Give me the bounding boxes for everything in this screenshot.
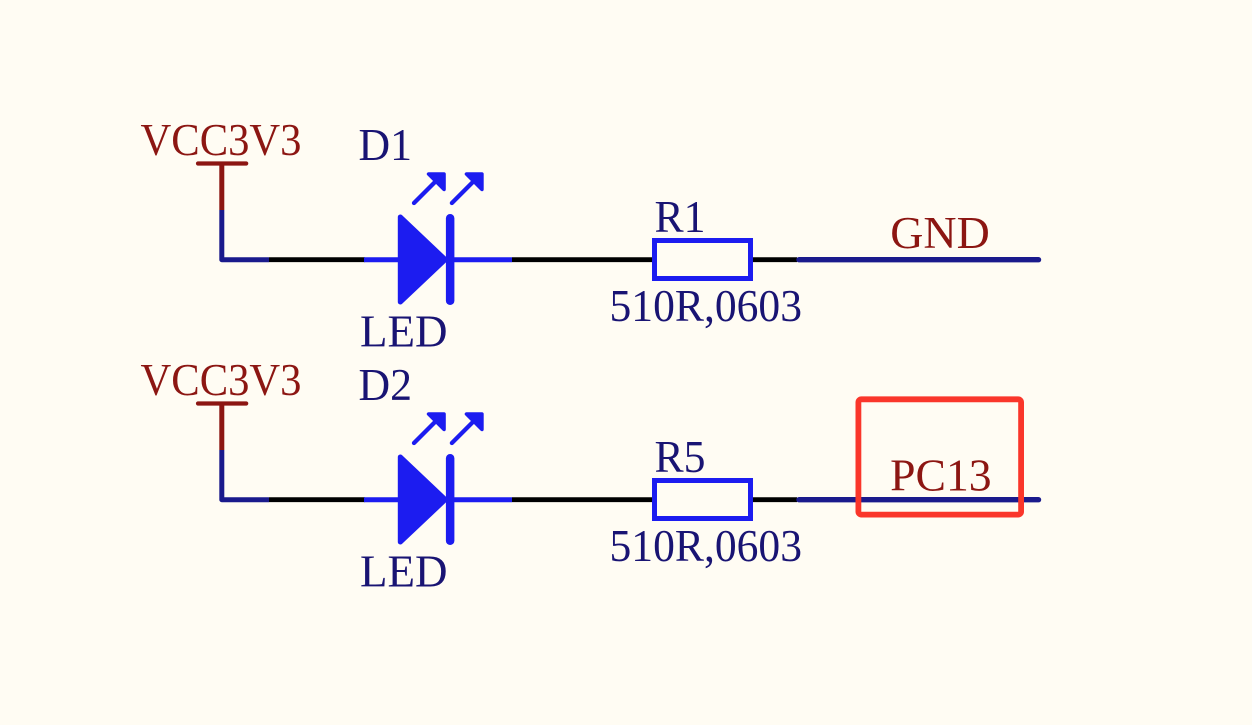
LED D1 arrow 2 shaft	[452, 182, 474, 204]
svg-text:R5: R5	[655, 432, 706, 482]
resistor R5 body box	[655, 481, 751, 519]
wire black R1 to GND net (row 1)	[753, 257, 797, 262]
wire black LED to R5 (row 2)	[512, 497, 653, 502]
LED D1 arrow 1 head	[429, 174, 444, 189]
LED D1 left pin	[364, 257, 399, 262]
wire black LED to R1 (row 1)	[512, 257, 653, 262]
wire black VCC to LED (row 2)	[269, 497, 365, 502]
LED D2 arrow 2 shaft	[452, 422, 474, 444]
svg-text:510R,0603: 510R,0603	[610, 281, 803, 331]
LED D2 left pin	[364, 497, 399, 502]
svg-text:LED: LED	[360, 547, 448, 597]
LED D2 triangle anode	[400, 457, 445, 542]
LED D2 arrow 1 shaft	[414, 422, 436, 444]
wire black R5 to PC13 net (row 2)	[753, 497, 797, 502]
LED D1 arrow 1 shaft	[414, 182, 436, 204]
svg-text:GND: GND	[890, 208, 990, 258]
wire navy GND net (row 1)	[799, 257, 1039, 262]
LED D2 cathode bar	[446, 454, 455, 545]
resistor R1 body box	[655, 241, 751, 279]
svg-text:D2: D2	[359, 360, 413, 410]
svg-text:LED: LED	[360, 307, 448, 357]
LED D1 cathode bar	[446, 214, 455, 305]
power port VCC3V3 (row 2) bar symbol	[198, 404, 246, 451]
svg-text:VCC3V3: VCC3V3	[141, 115, 302, 165]
svg-text:VCC3V3: VCC3V3	[141, 355, 302, 405]
wire navy from VCC stem to corner (row 1)	[222, 210, 269, 260]
LED D2 right pin	[452, 497, 512, 502]
svg-text:R1: R1	[655, 192, 706, 242]
svg-text:PC13: PC13	[890, 451, 992, 501]
LED D1 arrow 2 head	[467, 174, 482, 189]
LED D2 arrow 2 head	[467, 414, 482, 429]
LED D2 arrow 1 head	[429, 414, 444, 429]
wire black VCC to LED (row 1)	[269, 257, 365, 262]
LED D1 triangle anode	[400, 217, 445, 302]
svg-text:510R,0603: 510R,0603	[610, 521, 803, 571]
svg-text:D1: D1	[359, 120, 413, 170]
port box PC13 (red highlight rectangle)	[858, 399, 1021, 514]
wire navy PC13 net (row 2)	[799, 497, 1039, 502]
LED D1 right pin	[452, 257, 512, 262]
power port VCC3V3 (row 1) bar symbol	[198, 164, 246, 211]
wire navy from VCC stem to corner (row 2)	[222, 450, 269, 500]
